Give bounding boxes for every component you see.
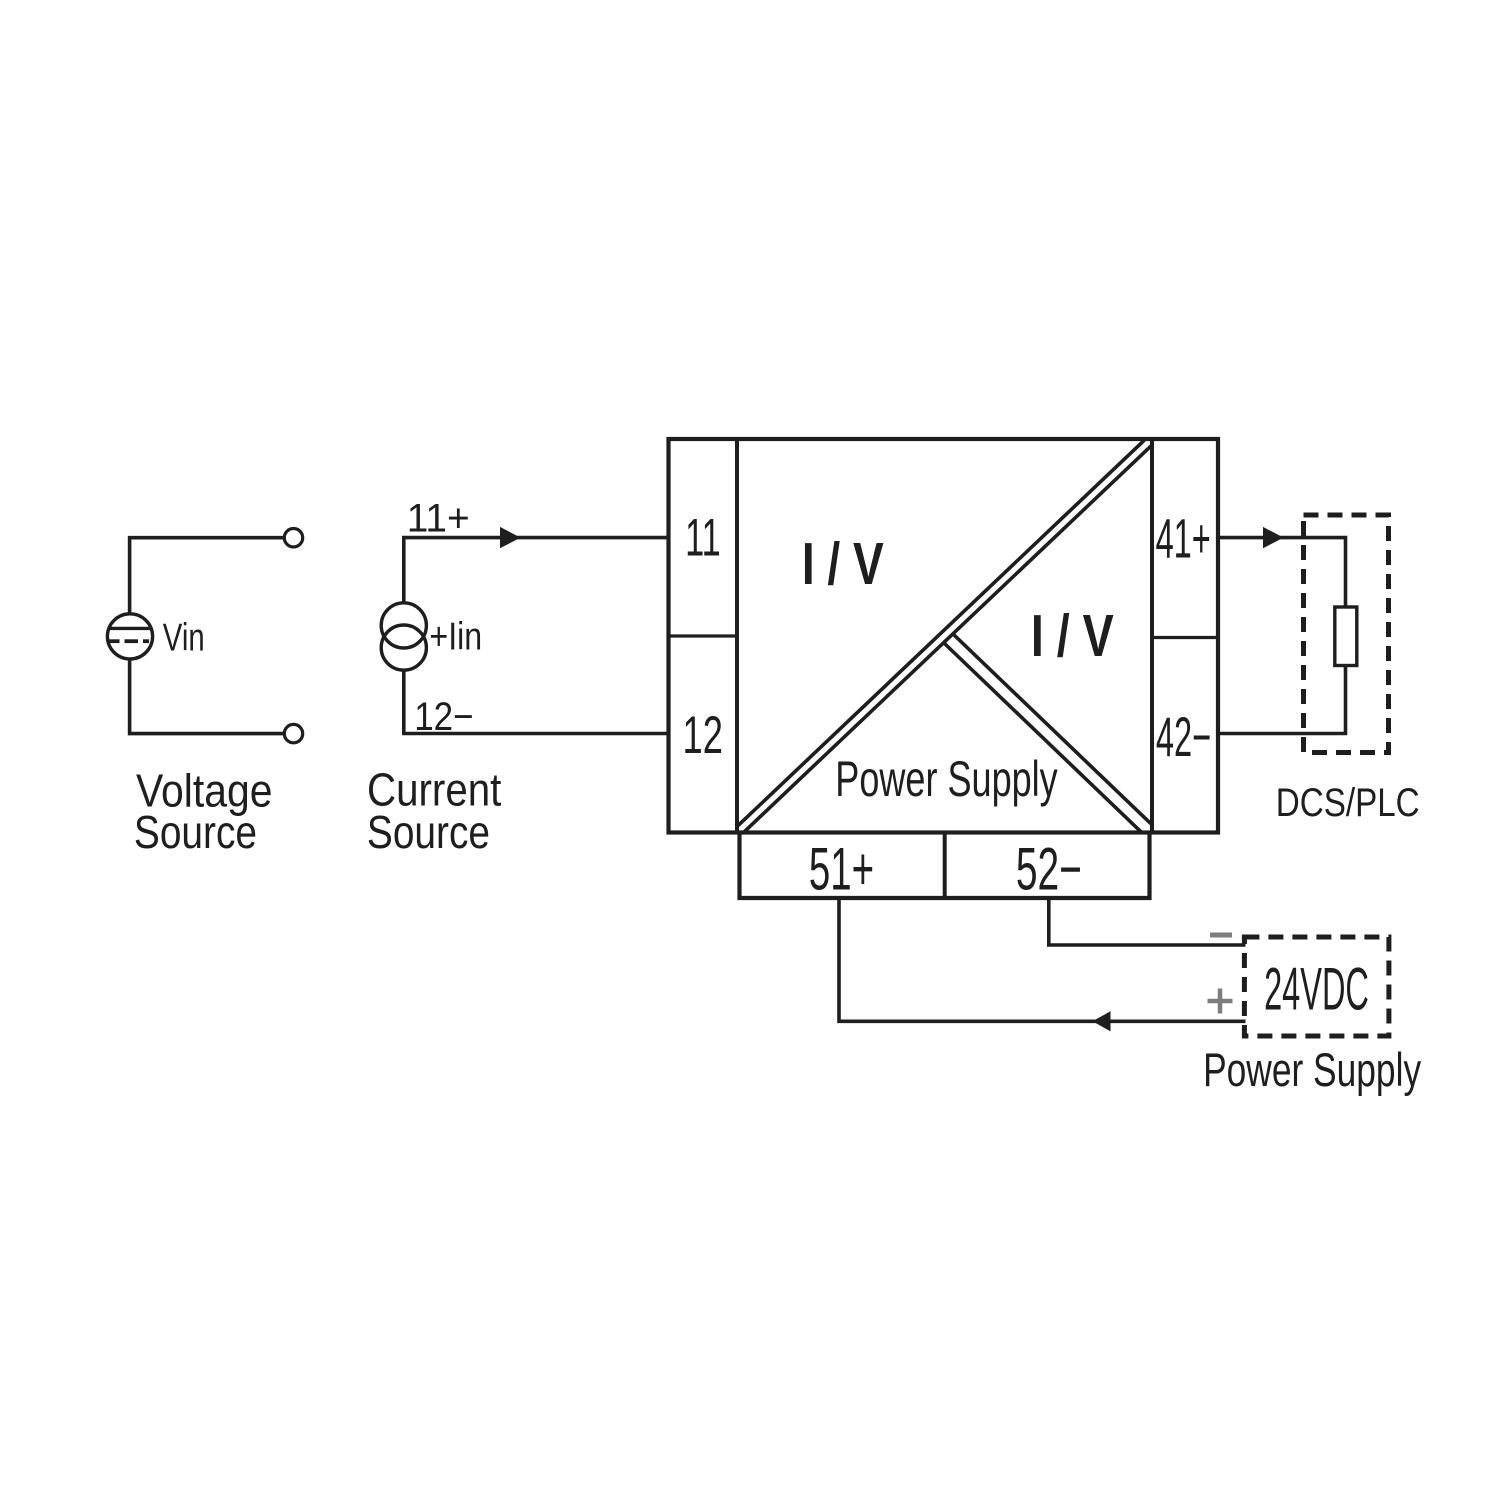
minus polarity mark — [1210, 933, 1232, 938]
isolator block outline — [669, 439, 1219, 833]
svg-text:Power Supply: Power Supply — [1203, 1043, 1421, 1096]
svg-text:+Iin: +Iin — [429, 615, 482, 659]
terminal: open circle top — [284, 529, 302, 547]
24VDC supply dashed box — [1244, 937, 1389, 1036]
arrowhead on 11+ wire — [500, 527, 521, 548]
svg-text:Source: Source — [134, 807, 257, 859]
terminal: open circle bottom — [284, 724, 302, 742]
right terminal column divider — [1150, 439, 1154, 833]
wire 52- to supply minus — [1049, 898, 1246, 945]
current source Iin (two overlapping circles) — [381, 603, 426, 670]
divider between terminals 11 and 12 — [669, 634, 738, 637]
wire 51+ to supply plus — [839, 898, 1246, 1021]
diagonal divider 2 (double line, center to bottom-right) — [944, 634, 1161, 842]
wire load to 42- — [1218, 665, 1346, 734]
plus polarity mark — [1208, 989, 1233, 1014]
wire 41+ to load — [1218, 538, 1346, 608]
svg-text:52−: 52− — [1016, 835, 1082, 903]
diagonal divider 1 (double line, bottom-left to top-right) — [731, 433, 1158, 839]
svg-text:41+: 41+ — [1156, 507, 1211, 569]
arrowhead on 41+ wire — [1263, 527, 1284, 548]
wire: voltage source loop bottom — [130, 658, 285, 734]
svg-text:Power Supply: Power Supply — [835, 753, 1058, 808]
svg-text:12: 12 — [682, 705, 722, 764]
bottom terminal row outline — [740, 833, 1150, 899]
wire 12- : current source to terminal 12 — [404, 670, 669, 733]
svg-text:I / V: I / V — [1031, 604, 1114, 669]
svg-text:51+: 51+ — [809, 835, 874, 903]
voltage source Vin (DC source symbol) — [107, 614, 152, 659]
label Current Source — [367, 765, 501, 859]
arrowhead on supply wire (pointing left) — [1093, 1011, 1111, 1031]
svg-text:11: 11 — [685, 509, 721, 567]
svg-text:DCS/PLC: DCS/PLC — [1276, 780, 1420, 825]
svg-text:42−: 42− — [1156, 706, 1211, 768]
DCS/PLC dashed box — [1304, 515, 1389, 753]
svg-text:11+: 11+ — [407, 496, 470, 541]
svg-text:24VDC: 24VDC — [1264, 956, 1369, 1023]
svg-text:Vin: Vin — [163, 617, 205, 660]
wire 11+ : current source to terminal 11 — [404, 538, 669, 605]
svg-text:I / V: I / V — [802, 532, 884, 598]
load resistor — [1335, 607, 1357, 666]
svg-text:12−: 12− — [414, 694, 473, 739]
left terminal column divider — [735, 439, 739, 833]
wire: voltage source loop top — [130, 538, 285, 615]
label Voltage Source — [134, 765, 273, 859]
svg-text:Source: Source — [367, 807, 490, 859]
divider between terminals 51 and 52 — [943, 833, 947, 899]
divider between terminals 41 and 42 — [1152, 636, 1218, 639]
